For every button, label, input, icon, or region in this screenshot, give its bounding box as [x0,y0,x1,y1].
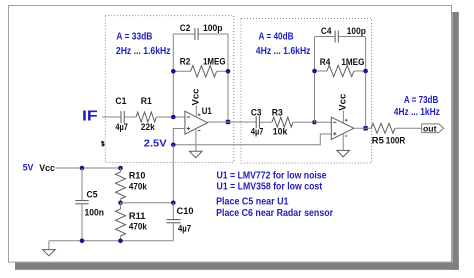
svg-text:R3: R3 [272,107,283,117]
ground symbol bottom left [43,250,56,256]
U1 V- pin [195,129,197,152]
svg-text:R1: R1 [141,96,152,106]
svg-text:100n: 100n [85,208,105,218]
node divider midpoint [118,201,123,206]
drop shadow bottom [15,263,459,270]
svg-text:C10: C10 [177,206,194,216]
svg-text:100R: 100R [386,136,406,146]
wire midpoint to C10 column [121,202,174,204]
wire R2 right stem [217,70,228,72]
U2 output node square [363,126,367,130]
wire R3 to node B [293,121,315,123]
node R2 left [171,69,176,74]
svg-text:U1: U1 [202,106,212,116]
node R2 right [226,69,231,74]
resistor R2 [191,66,217,77]
wire C5 bottom stem [81,204,83,241]
svg-text:4µ7: 4µ7 [115,122,128,132]
svg-text:4Hz ... 1.6kHz: 4Hz ... 1.6kHz [256,46,311,57]
svg-text:U1 = LMV358 for low cost: U1 = LMV358 for low cost [217,181,323,192]
svg-text:4Hz ... 1kHz: 4Hz ... 1kHz [394,107,440,118]
svg-text:5V: 5V [23,163,34,173]
wire C1 to R1 [125,116,136,118]
svg-text:U1 = LMV772 for low noise: U1 = LMV772 for low noise [217,170,328,181]
wire C10 bottom stem [172,223,174,241]
ground rail bottom [49,240,173,242]
svg-text:2.5V: 2.5V [144,138,167,150]
svg-text:100p: 100p [203,23,223,33]
svg-text:Place C5 near U1: Place C5 near U1 [216,197,289,208]
U1 Vcc pin [195,105,197,117]
wire feedback left vertical stage1 [172,34,174,117]
dotted box stage 1 [105,16,234,163]
wire node A to U1 inverting input [173,116,185,118]
svg-text:2Hz ... 1.6kHz: 2Hz ... 1.6kHz [116,46,171,57]
svg-text:A = 73dB: A = 73dB [404,95,438,106]
ground stem bottom left [48,241,50,250]
wire R1 to node A [156,116,173,118]
wire C10 top stem [172,203,174,220]
resistor R10 [116,168,126,203]
svg-text:out: out [423,123,437,133]
node R4 left [312,69,317,74]
capacitor C10 [167,220,181,223]
wire R5 to out port [395,127,422,129]
wire C3 to R3 [260,121,272,123]
svg-text:Vcc: Vcc [190,89,200,106]
node R11 bottom [118,239,123,244]
node C5 top [80,166,85,171]
node A junction dot [171,115,176,120]
wire top to C4 [315,36,335,38]
svg-text:Vcc: Vcc [337,94,347,111]
resistor R1 [136,112,156,122]
op-amp U1 [185,111,208,134]
5V Vcc feed wire [55,167,120,169]
svg-text:R11: R11 [129,211,146,221]
wire feedback right vertical stage1 [227,34,229,122]
node B junction dot [312,120,317,125]
U2 V- pin [342,134,344,150]
wire 2.5V down to divider [172,145,174,203]
wire feedback top left to C2 [173,33,194,35]
wire IF input [102,116,120,118]
2.5V rail [173,134,331,145]
svg-text:R5: R5 [372,136,384,146]
wire U1 plus input bend [173,129,185,145]
op-amp U2 [331,117,354,139]
ground under U2 [337,150,350,157]
svg-text:R2: R2 [180,56,191,66]
svg-text:10k: 10k [273,127,288,137]
wire C5 top stem [81,168,83,200]
wire feedback left vertical stage2 [314,37,316,123]
svg-text:C4: C4 [321,26,332,36]
node R10 top [118,166,123,171]
svg-text:470k: 470k [129,221,148,231]
resistor R5 [371,123,395,133]
svg-text:22k: 22k [141,122,156,132]
capacitor C1 [121,111,124,123]
dotted box stage 2 [241,19,372,164]
resistor R3 [272,117,293,127]
capacitor C5 [75,201,88,204]
svg-text:C1: C1 [115,96,126,106]
resistor R4 [327,65,354,76]
svg-text:A = 40dB: A = 40dB [259,32,294,43]
svg-text:A = 33dB: A = 33dB [116,32,152,43]
svg-text:100p: 100p [347,26,366,36]
node C5 bottom [80,239,85,244]
svg-text:C5: C5 [87,190,98,200]
wire feedback right vertical stage2 [365,37,367,129]
svg-text:R10: R10 [129,170,146,180]
node C10 top [171,201,176,206]
U1 output node square [226,120,230,124]
resistor R11 [116,203,126,241]
wire U1 output to C3 [208,121,257,123]
wire R4 right stem [354,70,366,72]
wire U2 output to R5 [354,127,371,129]
svg-text:Vcc: Vcc [39,163,55,173]
svg-text:C2: C2 [180,23,191,33]
svg-text:Place C6 near Radar sensor: Place C6 near Radar sensor [216,208,333,219]
ground under U1 [189,151,202,158]
out port tag [422,124,444,133]
drop shadow right [452,12,459,270]
svg-text:4µ7: 4µ7 [178,224,191,234]
capacitor C4 [335,31,338,43]
wire R4 left stem [315,70,328,72]
wire node B to U2 inverting input [315,121,332,123]
svg-text:470k: 470k [129,181,148,191]
svg-text:1MEG: 1MEG [341,57,364,67]
capacitor C2 [195,28,198,40]
wire C4 to right vertical [339,36,366,38]
wire C2 to feedback right vertical [199,33,229,35]
U2 Vcc pin [342,111,344,123]
svg-text:R4: R4 [320,57,331,67]
node 2.5V [171,143,176,148]
stray cursor mark [101,141,105,147]
svg-text:4µ7: 4µ7 [251,127,264,137]
node R4 right [363,69,368,74]
svg-text:1MEG: 1MEG [203,56,226,66]
wire R2 left stem [173,70,190,72]
svg-text:C3: C3 [251,107,262,117]
capacitor C3 [256,116,259,128]
svg-text:IF: IF [82,108,98,124]
